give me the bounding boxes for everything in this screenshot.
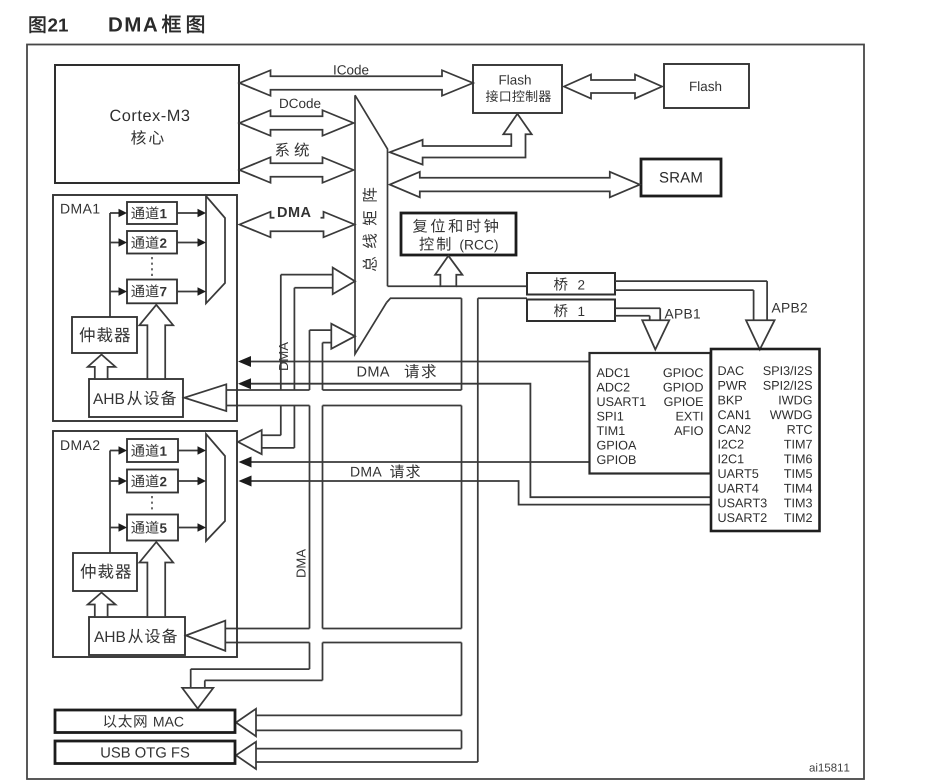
box: AHB从设备 (DMA2) — [89, 617, 185, 655]
hollow down arrowhead into Ethernet MAC top — [182, 688, 213, 709]
DMA request line 2b: APB2(USART2..) to DMA2 — [241, 481, 712, 505]
box: 桥 2 (bridge 2) — [527, 273, 615, 295]
double arrow: Flash interface to Flash — [564, 75, 662, 99]
box: 通道7 (DMA1) — [127, 280, 177, 304]
V2 left edge segments — [461, 298, 463, 390]
DMA request line 1b: APB2(USART3..) to DMA1 — [240, 384, 711, 498]
DMA request line 1a: APB1 to DMA1 (with solid arrowhead) — [240, 361, 590, 363]
arbiter feed lines DMA1 — [109, 213, 111, 317]
DMA request label 2 — [351, 467, 382, 477]
box: 通道1 (DMA2) — [127, 439, 178, 462]
box: DMA1 — [53, 195, 237, 421]
hollow arrowhead into DMA2 AHB slave — [186, 621, 225, 651]
hollow up arrow: corridor to RCC — [435, 256, 462, 286]
box: 仲裁器 (DMA1 arbiter) — [72, 317, 137, 353]
DMA request label 1 — [358, 367, 390, 377]
DMA request line 2a: APB1(GPIOB row) to DMA2 — [241, 461, 590, 463]
double arrow: DCode — [240, 110, 354, 136]
box: APB2 peripherals — [711, 349, 820, 531]
hollow arrow into DMA2 box top right — [262, 434, 281, 436]
hollow up arrow AHB to arbiter DMA1 — [88, 355, 116, 380]
bus matrix trapezoid 总线矩阵 — [355, 95, 388, 354]
box: DMA2 — [53, 431, 237, 657]
wide bus H1: V2 corridor to DMA1 AHB slave (top line) — [226, 389, 309, 391]
hollow up arrow AHB to arbiter DMA2 — [88, 593, 116, 618]
hollow elbow arrow A1: V1 corridor into bus matrix left edge — [310, 329, 332, 331]
mux trapezoid DMA1 — [206, 196, 225, 303]
box: APB1 peripherals — [590, 353, 711, 474]
V1 vertical lines — [309, 330, 311, 390]
box: AHB从设备 (DMA1) — [89, 379, 183, 417]
hollow arrowhead into DMA1 AHB slave — [184, 384, 226, 411]
wide bus: V2 corridor to Ethernet MAC right side — [256, 714, 462, 716]
wide bus: V2 corridor to DMA2 AHB slave (top line) — [225, 628, 309, 630]
V1 bend to MAC down arrow — [191, 668, 310, 670]
box: 通道2 (DMA2) — [127, 470, 178, 493]
double arrow: bus matrix to SRAM — [390, 172, 640, 198]
box: 通道2 (DMA1) — [127, 231, 177, 254]
label DMA rotated (V0) — [279, 342, 288, 370]
wide bus corridor bottom line with jog at matrix — [387, 298, 527, 302]
bottom line — [225, 642, 309, 644]
label: 总线矩阵 (rotated) — [363, 257, 377, 271]
hollow arrowhead into USB OTG FS — [236, 742, 256, 769]
wide bus H1 bottom line — [226, 405, 309, 407]
double arrow: DMA (DMA1 to bus matrix) — [240, 212, 355, 238]
box: 仲裁器 (DMA2 arbiter) — [73, 553, 137, 591]
label ai15811 — [809, 763, 849, 771]
wide bus corridor: bus matrix to bridges (top line) — [388, 285, 441, 287]
box: 通道1 (DMA1) — [127, 202, 177, 224]
box: 复位和时钟控制 (RCC) thick — [401, 213, 516, 255]
dotted line channels DMA2 — [151, 496, 153, 512]
title: 图21 DMA框图 — [30, 17, 46, 33]
dotted line channels DMA1 — [151, 257, 153, 277]
box: Flash — [664, 64, 749, 108]
hollow up arrow AHB to channel7 DMA1 — [139, 305, 173, 379]
L path: Flash interface to bus matrix (hollow arrows both ends) — [390, 114, 532, 165]
box: Flash 接口控制器 — [473, 65, 562, 113]
label DMA rotated (V1) — [297, 549, 306, 577]
box: Cortex-M3 core — [55, 65, 239, 183]
box: 桥 1 (bridge 1) — [527, 300, 615, 322]
box: 以太网 MAC (thick) — [55, 710, 235, 733]
hollow up arrow AHB to channel5 DMA2 — [139, 542, 173, 617]
box: 通道5 (DMA2) — [127, 515, 178, 541]
mux trapezoid DMA2 — [206, 434, 225, 541]
path: 桥1 to APB1 peripherals with hollow down arrow — [615, 307, 660, 309]
double arrow: 系统 (system bus) — [240, 157, 354, 183]
wide bus: V2 corridor end to USB OTG FS right side — [256, 748, 462, 750]
path: 桥2 to APB2 peripherals with hollow down arrow — [615, 280, 767, 282]
arrows channels to mux DMA2 — [178, 450, 199, 452]
hollow elbow arrow A2: V0 corridor into bus matrix left edge — [281, 274, 333, 276]
double arrow: ICode (Cortex to Flash interface) — [240, 70, 474, 96]
arbiter feed lines DMA2 — [109, 451, 111, 554]
V0 vertical lines — [280, 275, 282, 390]
box: SRAM (thick) — [641, 159, 721, 196]
box: USB OTG FS (thick) — [55, 741, 235, 764]
vertical wide bus V2: corridor down to AHB slaves / MAC / USB (right edge) — [477, 298, 479, 762]
arrows channels to mux DMA1 — [177, 212, 199, 214]
hollow arrowhead into Ethernet MAC — [236, 709, 256, 737]
